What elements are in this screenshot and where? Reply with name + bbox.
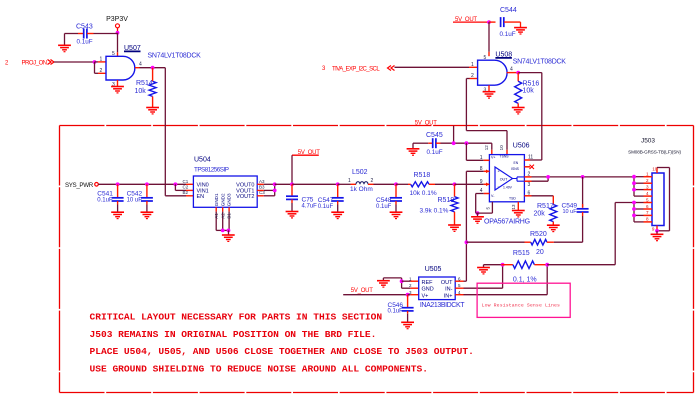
svg-text:C543: C543 xyxy=(76,23,93,30)
svg-text:5V_OUT: 5V_OUT xyxy=(415,121,437,127)
svg-text:PROJ_ON: PROJ_ON xyxy=(22,61,47,67)
svg-text:11: 11 xyxy=(528,155,533,161)
svg-text:L502: L502 xyxy=(352,169,368,176)
svg-text:GND: GND xyxy=(422,287,434,293)
svg-text:0.1uF: 0.1uF xyxy=(427,149,443,156)
svg-text:OUT: OUT xyxy=(500,177,508,181)
svg-text:6: 6 xyxy=(528,191,531,197)
svg-text:10: 10 xyxy=(499,145,504,151)
svg-text:CRITICAL LAYOUT NECESSARY FOR: CRITICAL LAYOUT NECESSARY FOR PARTS IN T… xyxy=(90,312,383,323)
svg-text:TPS81256SIP: TPS81256SIP xyxy=(194,167,229,174)
svg-text:20: 20 xyxy=(536,249,544,256)
svg-text:GND3: GND3 xyxy=(227,193,232,206)
svg-text:5: 5 xyxy=(484,55,487,61)
svg-text:C545: C545 xyxy=(426,132,443,139)
svg-text:5: 5 xyxy=(112,51,115,57)
svg-text:13: 13 xyxy=(511,204,516,210)
svg-text:C544: C544 xyxy=(500,7,517,14)
svg-text:PLACE U504, U505, AND U506 CLO: PLACE U504, U505, AND U506 CLOSE TOGETHE… xyxy=(90,346,474,357)
svg-text:USE GROUND SHIELDING TO REDUCE: USE GROUND SHIELDING TO REDUCE NOISE ARO… xyxy=(90,363,429,374)
svg-text:10: 10 xyxy=(652,166,658,171)
svg-text:6: 6 xyxy=(646,204,649,209)
svg-text:INA213BIDCKT: INA213BIDCKT xyxy=(420,302,465,309)
svg-text:1.49V: 1.49V xyxy=(503,185,513,189)
svg-text:P3P3V: P3P3V xyxy=(106,16,128,23)
svg-text:SYS_PWR: SYS_PWR xyxy=(65,182,94,189)
svg-text:U504: U504 xyxy=(194,157,211,164)
svg-text:OPA567AIRHG: OPA567AIRHG xyxy=(484,218,530,225)
svg-text:10k: 10k xyxy=(135,88,147,95)
svg-text:U505: U505 xyxy=(425,266,442,273)
svg-text:B2: B2 xyxy=(183,190,189,195)
svg-text:REF: REF xyxy=(422,280,434,286)
svg-text:R514: R514 xyxy=(136,80,153,87)
svg-text:C1: C1 xyxy=(183,179,189,184)
svg-text:C547: C547 xyxy=(318,197,334,204)
svg-text:C548: C548 xyxy=(376,197,392,204)
svg-text:C2: C2 xyxy=(183,185,189,190)
svg-text:1k Ohm: 1k Ohm xyxy=(350,186,373,193)
svg-text:1: 1 xyxy=(480,155,483,161)
svg-text:C541: C541 xyxy=(97,190,113,197)
svg-text:2: 2 xyxy=(100,68,103,74)
svg-text:9: 9 xyxy=(480,179,483,185)
svg-text:4: 4 xyxy=(646,191,649,196)
svg-text:1: 1 xyxy=(100,56,103,62)
svg-text:0.1uF: 0.1uF xyxy=(97,197,113,203)
svg-text:TSNS: TSNS xyxy=(500,155,510,159)
svg-text:R520: R520 xyxy=(530,231,547,238)
svg-text:TSD: TSD xyxy=(509,196,516,200)
svg-text:IN+: IN+ xyxy=(444,293,453,299)
svg-text:4: 4 xyxy=(139,62,142,68)
svg-text:4.7uF: 4.7uF xyxy=(302,203,318,209)
svg-text:1: 1 xyxy=(646,172,649,177)
svg-text:4: 4 xyxy=(510,67,513,73)
svg-text:C75: C75 xyxy=(302,196,314,203)
svg-text:8: 8 xyxy=(646,217,649,222)
svg-text:5: 5 xyxy=(646,197,649,202)
svg-text:5V_OUT: 5V_OUT xyxy=(351,288,373,294)
svg-text:3: 3 xyxy=(528,182,531,188)
svg-text:A1: A1 xyxy=(214,213,219,219)
svg-text:R516: R516 xyxy=(523,80,540,87)
svg-text:J503 REMAINS IN ORIGINAL POSIT: J503 REMAINS IN ORIGINAL POSITION ON THE… xyxy=(90,329,377,340)
svg-text:A2: A2 xyxy=(220,213,225,219)
svg-text:10k: 10k xyxy=(523,87,535,94)
svg-text:0.1uF: 0.1uF xyxy=(388,309,404,315)
svg-text:1: 1 xyxy=(471,62,474,68)
svg-text:0.1uF: 0.1uF xyxy=(77,38,93,45)
svg-text:SN74LV1T08DCK: SN74LV1T08DCK xyxy=(148,53,202,60)
svg-text:0.1uF: 0.1uF xyxy=(500,31,516,38)
svg-text:SM08B-GRSS-TB(LF)(SN): SM08B-GRSS-TB(LF)(SN) xyxy=(628,150,681,155)
svg-text:EN: EN xyxy=(514,161,519,165)
svg-text:20k: 20k xyxy=(534,211,546,218)
svg-text:OUT: OUT xyxy=(441,280,453,286)
svg-text:R519: R519 xyxy=(438,197,455,204)
svg-text:10 uF: 10 uF xyxy=(563,209,578,215)
svg-text:C542: C542 xyxy=(127,190,143,197)
svg-text:12: 12 xyxy=(484,145,489,151)
svg-text:GND2: GND2 xyxy=(220,193,225,206)
svg-text:EN: EN xyxy=(197,194,205,200)
svg-text:2: 2 xyxy=(646,178,649,183)
svg-text:GND1: GND1 xyxy=(214,193,219,206)
svg-text:2: 2 xyxy=(528,172,531,178)
svg-text:7: 7 xyxy=(646,210,649,215)
svg-text:TIVA_EXP_I2C_SCL: TIVA_EXP_I2C_SCL xyxy=(332,66,380,72)
svg-text:0.1uF: 0.1uF xyxy=(318,204,334,210)
svg-text:V+: V+ xyxy=(422,293,429,299)
svg-text:0.1uF: 0.1uF xyxy=(376,204,392,210)
svg-text:10k 0.1%: 10k 0.1% xyxy=(410,190,437,197)
svg-text:VOUT2: VOUT2 xyxy=(236,194,254,200)
svg-text:R518: R518 xyxy=(414,172,431,179)
svg-text:1: 1 xyxy=(348,178,351,184)
svg-text:9: 9 xyxy=(652,227,655,232)
svg-text:B1: B1 xyxy=(227,213,232,219)
svg-text:B3: B3 xyxy=(259,185,265,190)
svg-text:2: 2 xyxy=(471,73,474,79)
svg-text:U506: U506 xyxy=(513,143,530,150)
svg-text:SN74LV1T08DCK: SN74LV1T08DCK xyxy=(513,59,567,66)
svg-text:3.9k 0.1%: 3.9k 0.1% xyxy=(420,207,449,214)
svg-text:VIN0: VIN0 xyxy=(197,182,209,188)
svg-text:Low Resistance Sense Lines: Low Resistance Sense Lines xyxy=(482,302,560,308)
svg-text:2: 2 xyxy=(371,178,374,184)
svg-text:A3: A3 xyxy=(259,179,265,184)
svg-text:R517: R517 xyxy=(537,203,554,210)
svg-text:10 uF: 10 uF xyxy=(127,197,143,203)
svg-text:R515: R515 xyxy=(513,250,530,257)
svg-text:VOUT0: VOUT0 xyxy=(236,182,254,188)
svg-text:3: 3 xyxy=(646,184,649,189)
svg-text:ISNS: ISNS xyxy=(511,167,520,171)
svg-text:IN-: IN- xyxy=(445,287,453,293)
svg-text:V+: V+ xyxy=(491,156,496,160)
svg-text:0.1, 1%: 0.1, 1% xyxy=(513,276,537,283)
svg-text:J503: J503 xyxy=(641,138,655,145)
